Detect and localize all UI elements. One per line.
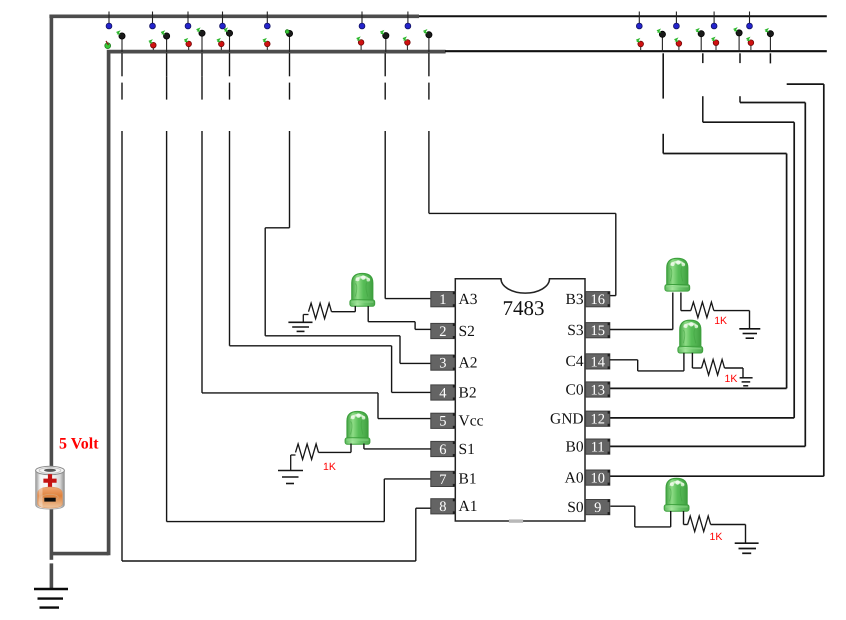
wire: pin 14 to D4 cathode leg <box>610 353 684 371</box>
svg-text:S3: S3 <box>567 322 584 339</box>
pin 9 (S0) <box>586 500 610 517</box>
wire: B0 net (bus to pin 11) <box>610 53 805 446</box>
svg-text:8: 8 <box>439 499 446 515</box>
wire: +5V top bus (thick) <box>49 14 419 18</box>
pin 14 (C4) <box>586 354 610 371</box>
wire: B1 net (bus to pin 7) <box>167 53 431 521</box>
svg-text:C4: C4 <box>566 353 584 370</box>
probes: red pins above ground bus <box>149 38 754 50</box>
svg-text:S0: S0 <box>567 499 584 516</box>
pin 2 (S2) <box>431 323 455 340</box>
svg-text:C0: C0 <box>566 381 584 398</box>
svg-text:16: 16 <box>590 292 605 308</box>
wire: A0 net (to pin 10) <box>610 84 824 476</box>
svg-text:GND: GND <box>550 411 584 428</box>
ground (battery, main) <box>34 589 68 608</box>
wire: A3 net (bus to pin 1) <box>385 53 431 298</box>
ground (R5) <box>735 543 759 553</box>
svg-text:4: 4 <box>439 385 447 401</box>
svg-text:B0: B0 <box>566 438 584 455</box>
wire: pin 9 to D5 cathode leg <box>610 506 670 527</box>
battery BT1 (5 Volt) <box>36 466 65 509</box>
probe: green pin at bus corner <box>105 41 111 49</box>
wire: D3 anode to resistor <box>681 293 691 311</box>
pin 12 (GND) <box>586 411 610 428</box>
resistor R2 1K <box>291 444 319 470</box>
LED D3 <box>665 258 690 291</box>
wire: Vcc net (bus to pin 5) <box>202 53 431 418</box>
svg-text:14: 14 <box>590 354 605 370</box>
svg-text:B3: B3 <box>566 291 584 308</box>
wire: B2 net (bus to pin 4) <box>230 53 432 392</box>
pin 3 (A2) <box>431 355 455 372</box>
pin 6 (S1) <box>431 441 455 458</box>
wire: bus stub (unterminated probe drop) <box>769 53 771 63</box>
svg-text:12: 12 <box>590 412 605 428</box>
svg-text:1K: 1K <box>714 315 727 327</box>
svg-text:15: 15 <box>590 323 605 339</box>
wire: battery negative to ground junction <box>51 509 108 590</box>
pin 13 (C0) <box>586 382 610 399</box>
svg-text:B2: B2 <box>459 384 477 401</box>
LED D1 <box>350 274 375 307</box>
wire: ground bus (thick) with left drop <box>107 50 446 556</box>
resistor R3 1K <box>691 302 750 328</box>
pin 8 (A1) <box>431 499 455 516</box>
wire: A1 net (bus to pin 8) <box>122 53 431 561</box>
svg-text:7: 7 <box>439 472 446 488</box>
wire: D1 anode to pin 2 <box>368 306 431 329</box>
wire: D1 cathode leg to resistor <box>332 306 356 312</box>
pin 5 (Vcc) <box>431 413 455 430</box>
resistor R4 1K <box>702 360 744 378</box>
pin 15 (S3) <box>586 323 610 340</box>
svg-text:S2: S2 <box>459 323 475 340</box>
pin 16 (B3) <box>586 292 610 309</box>
wire: D2 cathode leg to resistor <box>319 444 352 453</box>
svg-text:10: 10 <box>590 471 605 487</box>
pin 7 (B1) <box>431 471 455 488</box>
LED D5 <box>664 478 689 511</box>
wire: battery positive riser (left edge) <box>50 15 54 467</box>
probes: black logic pins on wire drops <box>117 28 774 52</box>
svg-text:13: 13 <box>590 382 605 398</box>
probes: blue voltage pins on +5V bus <box>106 12 752 29</box>
wire: ground bus (thin right part) <box>445 50 827 52</box>
svg-text:9: 9 <box>594 500 601 516</box>
svg-text:B1: B1 <box>459 471 477 488</box>
wire: GND net (bus to pin 12) <box>610 53 794 418</box>
wire: D5 anode to resistor <box>684 511 688 525</box>
svg-text:2: 2 <box>439 324 446 340</box>
svg-text:3: 3 <box>439 356 446 372</box>
resistor R5 1K <box>688 516 746 543</box>
svg-text:5 Volt: 5 Volt <box>59 436 99 453</box>
svg-text:5: 5 <box>439 414 446 430</box>
LED D2 <box>345 412 370 445</box>
svg-text:1K: 1K <box>725 373 738 385</box>
svg-text:1K: 1K <box>323 461 336 473</box>
probe: green pin at A2 drop <box>285 30 292 52</box>
wire: D2 anode to pin 6 <box>364 444 431 449</box>
svg-text:A0: A0 <box>565 469 584 486</box>
LED D4 <box>678 320 703 353</box>
pin 11 (B0) <box>586 439 610 456</box>
wire: B3 net (bus to pin 16) <box>429 53 616 295</box>
svg-text:6: 6 <box>439 442 446 458</box>
pin 1 (A3) <box>431 292 455 309</box>
svg-text:1: 1 <box>439 292 446 308</box>
wire: D4 anode to resistor <box>692 353 701 368</box>
ground (R4) <box>740 378 753 386</box>
IC U1 7483 body <box>455 279 585 523</box>
pin 10 (A0) <box>586 470 610 487</box>
wire: pin 15 to D3 cathode leg <box>610 293 673 330</box>
svg-text:1K: 1K <box>710 531 723 543</box>
ground (R2) <box>278 471 303 484</box>
ground (R1) <box>288 322 312 331</box>
wire: +5V top bus (thin right part) <box>419 15 827 17</box>
wire hop gap on battery negative wire <box>49 560 54 564</box>
wire: A2 net (bus to pin 3, jogged) <box>265 53 431 363</box>
svg-text:A2: A2 <box>459 354 478 371</box>
wire: C0 net (bus to pin 13) <box>610 53 787 388</box>
svg-text:S1: S1 <box>459 441 475 458</box>
svg-text:A3: A3 <box>459 291 478 308</box>
svg-text:A1: A1 <box>459 498 478 515</box>
svg-text:7483: 7483 <box>503 296 545 320</box>
svg-text:Vcc: Vcc <box>459 413 484 430</box>
svg-text:11: 11 <box>591 440 605 456</box>
ground (R3) <box>739 329 760 338</box>
pin 4 (B2) <box>431 385 455 402</box>
resistor R1 <box>303 303 331 322</box>
